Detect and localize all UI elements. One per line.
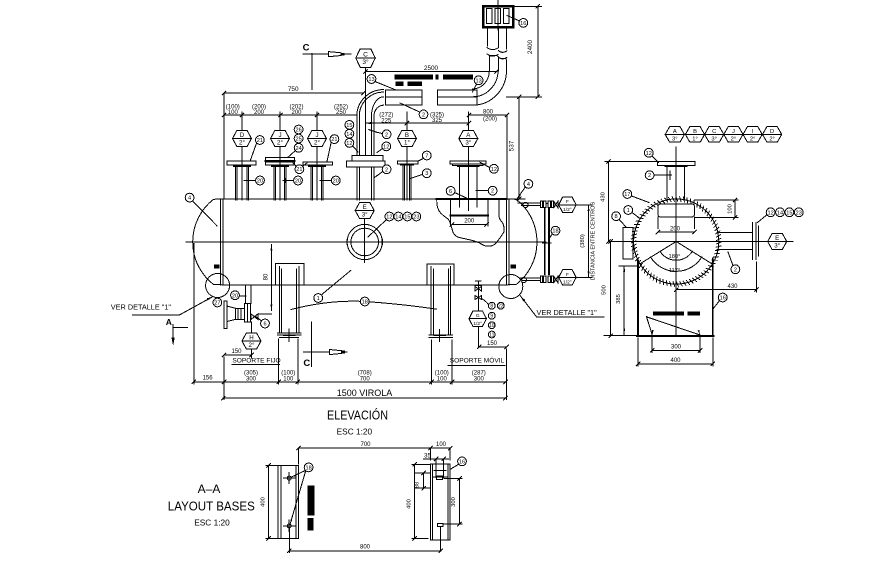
dim 380 LG xyxy=(577,205,592,278)
dim 400 base xyxy=(261,464,279,541)
svg-text:C: C xyxy=(712,129,716,135)
svg-text:500: 500 xyxy=(602,285,608,295)
elevacion esc xyxy=(337,427,373,437)
svg-text:385: 385 xyxy=(616,294,622,304)
svg-text:6: 6 xyxy=(263,322,266,328)
svg-text:300: 300 xyxy=(474,377,485,383)
dim 2400 xyxy=(514,5,542,99)
svg-text:12: 12 xyxy=(346,141,352,147)
ext lines left saddle xyxy=(279,339,298,384)
text 117deg xyxy=(669,268,681,274)
base right slot xyxy=(432,459,448,480)
svg-text:325: 325 xyxy=(432,118,443,124)
dim 100 side xyxy=(695,198,739,219)
ext lines right saddle xyxy=(432,340,452,384)
dim (100)/100 botL xyxy=(281,371,295,383)
svg-text:1/2°: 1/2° xyxy=(473,321,482,327)
stack neck xyxy=(488,27,507,49)
callout 17 side xyxy=(623,190,649,203)
callout 10 drain xyxy=(488,322,495,329)
callout 2 side E xyxy=(728,252,740,274)
right head tangent weld lines xyxy=(507,199,510,285)
svg-text:2400: 2400 xyxy=(527,39,534,54)
cap slot 2 xyxy=(495,9,501,24)
svg-text:F: F xyxy=(566,199,569,205)
right dished head xyxy=(507,199,538,285)
svg-text:1: 1 xyxy=(317,296,320,302)
svg-text:100: 100 xyxy=(436,442,447,448)
dim (200)/200 top xyxy=(252,105,266,117)
side support box xyxy=(637,259,714,337)
svg-text:300: 300 xyxy=(671,344,682,350)
nozzle C flange pair xyxy=(347,155,385,167)
svg-text:A: A xyxy=(166,317,172,327)
nozzle C pipe walls xyxy=(357,116,374,155)
callout 2 side top nozzle xyxy=(645,171,671,180)
support slope lines xyxy=(647,317,701,335)
base grout bar 1 xyxy=(307,486,314,516)
callout 12 flange A xyxy=(480,162,498,173)
svg-text:J: J xyxy=(732,129,735,135)
svg-text:25: 25 xyxy=(295,137,301,143)
leader curve 18 xyxy=(291,301,437,309)
svg-text:3°: 3° xyxy=(774,243,780,250)
level mark right xyxy=(511,265,516,269)
svg-text:537: 537 xyxy=(509,140,516,151)
nozzle location dim line mid xyxy=(366,121,471,125)
support grout bars xyxy=(653,311,700,315)
standpipe ext lines xyxy=(450,217,488,226)
svg-text:100: 100 xyxy=(437,377,448,383)
svg-text:12: 12 xyxy=(383,144,389,150)
callout 8 side xyxy=(612,212,626,227)
nozzle H horizontal pipe xyxy=(241,308,245,319)
svg-text:15: 15 xyxy=(346,123,352,129)
svg-text:800: 800 xyxy=(360,545,371,551)
svg-text:1/2°: 1/2° xyxy=(563,207,572,213)
dim 430 side top xyxy=(601,160,659,244)
svg-text:800: 800 xyxy=(483,109,494,115)
svg-text:100: 100 xyxy=(228,110,239,116)
svg-text:27: 27 xyxy=(214,301,220,307)
stack elbow outer arc xyxy=(473,71,507,106)
svg-text:C: C xyxy=(303,43,310,54)
dim (252)/250 top xyxy=(334,105,348,117)
callout 23 manway xyxy=(412,212,421,221)
svg-text:300: 300 xyxy=(451,497,457,507)
LG top stub xyxy=(518,202,540,207)
svg-text:100: 100 xyxy=(728,204,734,214)
nozzle H stem to hex xyxy=(251,322,253,333)
svg-text:B: B xyxy=(693,129,697,135)
side centerline vertical xyxy=(675,147,677,336)
callout 2 stem C xyxy=(375,165,392,178)
ext line right tangent bottom xyxy=(506,349,508,400)
svg-text:21: 21 xyxy=(257,138,263,144)
ext line right tangent top xyxy=(506,115,508,199)
LG top valve xyxy=(554,202,558,208)
dim 537 xyxy=(507,95,542,201)
base left bolt top xyxy=(284,473,295,484)
callout 20 stem J1 xyxy=(283,176,302,185)
nozzle A internal pipe xyxy=(460,200,477,211)
section A marker xyxy=(166,317,188,346)
callout 16 cap xyxy=(507,16,528,28)
dim 300 support xyxy=(650,337,702,353)
callout 18 LG xyxy=(549,226,560,239)
svg-text:D: D xyxy=(770,129,774,135)
dim (202)/200 top xyxy=(289,105,303,117)
svg-text:20: 20 xyxy=(257,179,263,185)
svg-text:200: 200 xyxy=(291,110,302,116)
callout 20 stem J2 xyxy=(320,176,340,185)
svg-text:6: 6 xyxy=(449,189,452,195)
svg-text:ELEVACIÓN: ELEVACIÓN xyxy=(327,408,388,423)
svg-text:400: 400 xyxy=(407,499,413,509)
svg-text:2°: 2° xyxy=(249,342,255,349)
svg-text:SOPORTE FIJO: SOPORTE FIJO xyxy=(232,358,280,365)
stack elbow mid arc xyxy=(473,71,499,97)
svg-text:2: 2 xyxy=(422,112,425,118)
callout 21 between J flanges xyxy=(293,163,307,174)
nozzle H blind flange xyxy=(224,301,227,329)
manway centerline cross xyxy=(344,222,386,263)
manway E circle xyxy=(347,224,382,259)
svg-text:13: 13 xyxy=(475,78,481,84)
callout 18 curve xyxy=(360,297,369,306)
nozzle J2 2in xyxy=(303,112,332,200)
vessel centerline xyxy=(186,241,546,243)
standpipe A walls xyxy=(450,200,488,215)
svg-text:3°: 3° xyxy=(672,137,678,143)
callout 4 left head xyxy=(185,193,217,226)
callout 11 drain xyxy=(488,331,495,338)
svg-text:ESC 1:20: ESC 1:20 xyxy=(194,518,230,528)
svg-text:2°: 2° xyxy=(750,137,756,143)
svg-text:26: 26 xyxy=(295,128,301,134)
dim 150 left xyxy=(222,349,253,358)
callout 13 left xyxy=(367,75,395,90)
LG bottom flanges xyxy=(541,276,554,283)
svg-text:1500 VIROLA: 1500 VIROLA xyxy=(337,388,393,398)
svg-text:2: 2 xyxy=(734,267,737,273)
svg-text:(200): (200) xyxy=(483,117,497,123)
svg-text:250: 250 xyxy=(336,110,347,116)
detail circle left xyxy=(206,274,230,298)
svg-text:13: 13 xyxy=(368,77,374,83)
drain G stem xyxy=(476,281,482,348)
LG top flanges xyxy=(541,201,554,208)
ver detalle 1 left text xyxy=(111,297,213,316)
svg-text:1: 1 xyxy=(627,208,630,214)
svg-text:E: E xyxy=(775,235,779,242)
section C marker top xyxy=(303,43,351,90)
callout 20 stem D xyxy=(244,176,264,185)
svg-text:DISTANCIA ENTRE CENTROS: DISTANCIA ENTRE CENTROS xyxy=(591,201,597,280)
soporte movil text xyxy=(448,356,505,366)
nozzle A 3in xyxy=(450,112,486,200)
svg-text:1/2°: 1/2° xyxy=(563,280,572,286)
left head tangent weld lines xyxy=(221,199,224,285)
callout 2 stem A lower xyxy=(476,186,497,195)
insulation band row1 xyxy=(395,75,474,80)
svg-text:14: 14 xyxy=(346,132,352,138)
dim 300 base xyxy=(444,476,462,526)
svg-text:A–A: A–A xyxy=(198,482,221,496)
cap slot 1 xyxy=(487,9,493,24)
dim 156 xyxy=(203,376,214,382)
nozzle H flange pair 2 xyxy=(236,308,241,319)
level mark left xyxy=(214,265,220,269)
callout 6 nozzle H xyxy=(255,316,269,328)
dim 100 base xyxy=(431,442,452,460)
side centerline horizontal xyxy=(609,241,794,243)
svg-text:1°: 1° xyxy=(404,140,410,147)
svg-text:35: 35 xyxy=(424,453,431,459)
ext line left tangent bottom xyxy=(223,357,225,400)
hexagon F top xyxy=(559,197,577,213)
callout 22 drain xyxy=(497,302,504,309)
dim 88 base xyxy=(415,471,430,490)
svg-text:2500: 2500 xyxy=(424,65,439,72)
nozzle C centerline xyxy=(365,68,367,156)
elbow C inner arc xyxy=(372,97,384,116)
svg-text:9: 9 xyxy=(490,314,493,320)
drain G fitting 1 xyxy=(475,285,482,291)
callout 8 drain xyxy=(488,302,495,309)
svg-text:(380): (380) xyxy=(580,234,586,248)
hexagon F bottom xyxy=(559,270,577,286)
dim 385 side xyxy=(616,266,637,335)
dim (287)/300 xyxy=(472,371,486,383)
svg-text:C: C xyxy=(363,51,368,58)
side callouts 12 14 15 23 xyxy=(758,208,804,223)
svg-text:D: D xyxy=(240,132,245,139)
distancia entre centros text xyxy=(591,201,597,280)
svg-text:3°: 3° xyxy=(711,137,717,143)
svg-text:180°: 180° xyxy=(669,254,681,260)
svg-text:21: 21 xyxy=(331,137,337,143)
dim 80 vertical xyxy=(258,245,272,314)
dim (272)/225 top xyxy=(379,113,393,125)
svg-text:100: 100 xyxy=(283,377,294,383)
svg-text:VER DETALLE "1": VER DETALLE "1" xyxy=(111,303,172,312)
svg-text:430: 430 xyxy=(727,284,738,290)
svg-text:J: J xyxy=(278,132,281,139)
elevacion title xyxy=(327,408,388,423)
callout 7 flange B xyxy=(418,151,431,161)
callout 12 nozzle C xyxy=(345,139,358,153)
svg-text:17: 17 xyxy=(624,192,630,198)
side shell circle xyxy=(634,199,719,284)
svg-text:4: 4 xyxy=(527,182,530,188)
right saddle web xyxy=(431,267,451,336)
svg-text:14: 14 xyxy=(395,215,401,221)
callout 9 drain xyxy=(488,312,495,319)
dim (100)/100 botR xyxy=(435,371,449,383)
side shell insulation hatch xyxy=(631,197,721,287)
nozzle D 2in xyxy=(227,112,256,200)
vessel shell top line xyxy=(223,198,506,200)
svg-text:700: 700 xyxy=(360,377,371,383)
left saddle anchor centerline xyxy=(284,329,296,342)
svg-text:80: 80 xyxy=(264,273,270,280)
svg-text:23: 23 xyxy=(796,210,802,216)
callout 2 pipe wall xyxy=(369,130,391,139)
left saddle web xyxy=(279,267,299,333)
hexagon nozzle H 2in xyxy=(242,333,261,349)
nozzle C pipe below flange xyxy=(357,167,374,200)
callout 2 pipe xyxy=(400,103,428,119)
soporte fijo text xyxy=(232,358,281,365)
stack elbow inner arc xyxy=(472,71,489,89)
svg-text:E: E xyxy=(363,204,367,211)
svg-text:16: 16 xyxy=(520,21,526,27)
nozzle J1 2in xyxy=(265,112,294,200)
svg-text:700: 700 xyxy=(360,442,371,448)
stack break lines xyxy=(487,48,507,59)
dim 400 support xyxy=(636,338,714,366)
standpipe A bottom plate xyxy=(450,215,488,217)
right saddle base plate xyxy=(429,335,453,337)
right saddle anchor centerline xyxy=(434,330,446,342)
ext line head extreme xyxy=(193,244,195,385)
cap slot 3 xyxy=(504,9,510,24)
base right plate xyxy=(431,464,450,540)
svg-text:2: 2 xyxy=(385,167,388,173)
callout 12 side flange xyxy=(644,148,658,162)
side hexagon flag row xyxy=(665,127,782,143)
svg-text:16: 16 xyxy=(459,459,465,465)
svg-text:18: 18 xyxy=(305,465,311,471)
side top nozzle neck xyxy=(667,167,684,200)
nozzle H drop pipe xyxy=(246,285,251,304)
svg-text:3: 3 xyxy=(425,171,428,177)
svg-text:15: 15 xyxy=(786,210,792,216)
left saddle base plate xyxy=(278,333,301,338)
svg-text:2: 2 xyxy=(491,189,494,195)
stack lower pipe xyxy=(489,56,506,72)
elbow C outer arc xyxy=(357,90,384,116)
section C marker bottom xyxy=(303,322,347,369)
callout 25 nozzle J1 xyxy=(294,134,303,143)
insulated pipe lower run xyxy=(386,97,477,105)
callout 15 manway xyxy=(403,212,412,221)
callout 6 stem A lower xyxy=(446,187,467,199)
right saddle wear plate xyxy=(427,264,454,285)
svg-text:20: 20 xyxy=(295,179,301,185)
svg-text:300: 300 xyxy=(246,377,257,383)
callout 16 base xyxy=(450,457,466,470)
stack rain cap xyxy=(483,6,513,27)
dim (325)/325 top xyxy=(430,112,444,124)
dim 1500 virola xyxy=(221,388,507,400)
nozzle B 1in xyxy=(397,112,418,200)
side top nozzle flange xyxy=(657,162,695,167)
svg-text:LAYOUT BASES: LAYOUT BASES xyxy=(168,500,255,514)
callout 21 nozzle J2 xyxy=(327,135,339,162)
side internal inlet pipe xyxy=(658,204,695,229)
nozzle location dim line right xyxy=(467,113,509,117)
svg-text:2°: 2° xyxy=(239,140,245,147)
callout 20 nozzle H xyxy=(231,291,247,300)
svg-text:400: 400 xyxy=(261,497,267,507)
svg-text:3°: 3° xyxy=(465,140,471,147)
callout 16 support xyxy=(713,293,727,309)
svg-text:22: 22 xyxy=(498,304,504,310)
svg-text:14: 14 xyxy=(777,210,783,216)
svg-text:3°: 3° xyxy=(362,58,369,66)
base grout bar 2 xyxy=(307,518,313,530)
svg-text:ESC 1:20: ESC 1:20 xyxy=(337,427,373,437)
insulated pipe upper run xyxy=(386,90,477,97)
angle lines 117 xyxy=(640,242,713,265)
svg-text:1°: 1° xyxy=(692,137,698,143)
callout 18 base xyxy=(290,463,313,525)
side nozzle E flange xyxy=(752,223,758,260)
svg-text:2°: 2° xyxy=(731,137,737,143)
callout 13 right xyxy=(473,76,484,92)
callout 15 nozzle C xyxy=(345,121,354,130)
svg-text:200: 200 xyxy=(254,110,265,116)
svg-text:12: 12 xyxy=(767,210,773,216)
nozzle location dim line left xyxy=(222,113,357,117)
svg-text:2°: 2° xyxy=(314,140,320,147)
svg-text:20: 20 xyxy=(232,293,238,299)
side left nozzle xyxy=(623,228,633,260)
svg-text:18: 18 xyxy=(552,229,558,235)
dim 700 base xyxy=(297,442,433,464)
aa title xyxy=(168,482,255,528)
hexagon nozzle C 3in xyxy=(356,49,376,68)
svg-text:12: 12 xyxy=(646,151,652,157)
hexagon side E 3in xyxy=(768,234,787,250)
insulation band row2 xyxy=(396,82,423,87)
callout 1 shell xyxy=(314,270,351,302)
svg-text:H: H xyxy=(249,334,253,341)
nozzle H upper flange pair xyxy=(244,303,250,322)
svg-text:4: 4 xyxy=(188,196,191,202)
detail circle right xyxy=(499,275,523,299)
base right bolt bottom xyxy=(437,524,443,551)
left dished head xyxy=(193,199,224,285)
svg-text:21: 21 xyxy=(296,167,302,173)
side nozzle E neck xyxy=(717,233,752,250)
svg-text:750: 750 xyxy=(288,86,299,93)
dim 800/(200) top xyxy=(483,109,497,122)
dim (100)/100 top xyxy=(226,105,240,117)
dim 200 standpipe xyxy=(450,219,489,227)
leader G callouts xyxy=(482,299,489,305)
ext line left tangent top xyxy=(223,93,225,199)
left saddle wear plate xyxy=(275,264,304,285)
nozzle H reducer xyxy=(227,306,235,321)
svg-text:VER DETALLE "1": VER DETALLE "1" xyxy=(537,308,598,317)
callout 4 right head xyxy=(517,180,533,199)
svg-text:11: 11 xyxy=(489,332,494,338)
ver detalle 1 right text xyxy=(520,296,604,317)
callout 27 xyxy=(213,298,222,307)
callout 3 stem B xyxy=(410,169,431,179)
svg-text:2°: 2° xyxy=(277,140,283,147)
dim 200 side xyxy=(656,227,696,234)
svg-text:200: 200 xyxy=(670,227,681,233)
svg-text:2°: 2° xyxy=(769,137,775,143)
svg-text:10: 10 xyxy=(489,323,495,329)
svg-text:7: 7 xyxy=(425,154,428,160)
svg-text:150: 150 xyxy=(231,349,242,355)
svg-text:G: G xyxy=(476,313,480,319)
